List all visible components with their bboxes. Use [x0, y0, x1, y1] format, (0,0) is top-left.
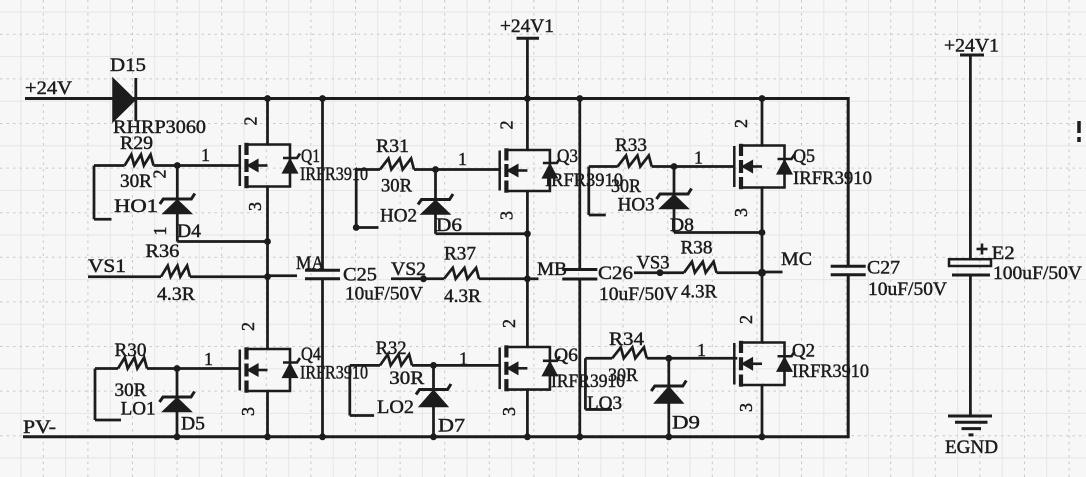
svg-text:C25: C25 — [343, 265, 377, 286]
junction C26 PV- — [576, 433, 583, 440]
zener D9 — [651, 358, 686, 437]
transistor Q5 — [734, 144, 794, 189]
pin 1 Q3 — [458, 149, 467, 169]
value 30R (R32) — [389, 368, 424, 389]
label R29 — [120, 133, 153, 154]
node HO1 label — [114, 196, 158, 217]
zener D7 — [416, 365, 451, 436]
wire PV- bottom rail — [23, 435, 849, 438]
svg-text:3: 3 — [497, 211, 517, 220]
wire Q6 source — [526, 390, 529, 437]
label R33 — [615, 135, 647, 156]
label R36 — [145, 241, 179, 262]
wire gate Q1 — [177, 164, 240, 167]
svg-text:10uF/50V: 10uF/50V — [345, 284, 423, 305]
svg-text:EGND: EGND — [945, 437, 998, 458]
transistor Q3 — [500, 148, 560, 192]
wire Q1 drain — [266, 99, 269, 145]
resistor R33 — [589, 156, 674, 167]
pin 3 Q1 — [245, 202, 265, 211]
value IRFR3910 (Q2) — [792, 361, 869, 382]
wire Q3 source — [526, 191, 529, 279]
svg-text:E2: E2 — [992, 243, 1015, 264]
svg-text:100uF/50V: 100uF/50V — [993, 263, 1082, 284]
svg-text:30R: 30R — [389, 368, 424, 389]
wire gate Q6 — [434, 364, 501, 367]
wire Q5 drain — [761, 99, 764, 146]
resistor R34 — [585, 347, 668, 358]
value IRFR3910 (Q1) — [300, 164, 368, 185]
svg-text:R34: R34 — [609, 329, 645, 350]
value 4.3R (R38) — [681, 282, 717, 303]
svg-text:C26: C26 — [598, 263, 633, 284]
wire E2 bottom — [969, 275, 972, 416]
transistor Q1 — [240, 143, 300, 188]
svg-text:D15: D15 — [110, 55, 146, 76]
svg-text:Q2: Q2 — [792, 341, 815, 362]
junction gate node Q2 — [665, 355, 672, 362]
junction D5 PV- — [174, 433, 181, 440]
value IRFR3910 (Q5) — [793, 168, 872, 189]
svg-text:LO3: LO3 — [587, 393, 622, 414]
svg-text:R37: R37 — [444, 244, 476, 265]
wire C26 top — [578, 99, 581, 270]
pin 2 Q3 — [497, 121, 517, 130]
label Q2 — [792, 341, 815, 362]
svg-text:VS1: VS1 — [88, 256, 126, 277]
svg-text:R31: R31 — [376, 136, 409, 157]
junction gate node Q5 — [671, 163, 678, 170]
wire C25 top — [321, 99, 324, 271]
zener D4 — [160, 166, 195, 242]
svg-text:R38: R38 — [681, 238, 713, 259]
label C26 — [598, 263, 633, 284]
junction Q4 source PV- — [264, 433, 271, 440]
svg-text:R33: R33 — [615, 135, 647, 156]
pin 1 D4 — [150, 227, 170, 236]
wire D8 anode to source — [674, 231, 762, 234]
junction D7 PV- — [430, 433, 437, 440]
svg-text:3: 3 — [499, 407, 519, 416]
ground EGND — [948, 416, 992, 435]
value 30R (R31) — [381, 176, 412, 197]
label R30 — [115, 340, 147, 361]
pin 2 Q1 — [241, 117, 261, 126]
svg-text:+24V1: +24V1 — [944, 36, 999, 57]
svg-text:PV-: PV- — [23, 417, 56, 438]
wire Q3 drain — [526, 99, 529, 151]
capacitor E2 — [949, 244, 991, 276]
junction gate node Q3 — [432, 166, 439, 173]
value 4.3R (R37) — [444, 286, 481, 307]
svg-text:2: 2 — [497, 121, 517, 130]
capacitor C26 — [562, 270, 597, 280]
label D6 — [436, 215, 462, 236]
pin 3 Q5 — [731, 208, 751, 217]
svg-text:2: 2 — [150, 170, 170, 179]
wire E2 top — [969, 55, 972, 259]
resistor R38 — [634, 262, 762, 273]
svg-text:3: 3 — [245, 202, 265, 211]
svg-text:R29: R29 — [120, 133, 153, 154]
pin 1 Q6 — [459, 349, 468, 369]
wire LO1 stub — [95, 369, 121, 421]
value IRFR3910 (Q6) — [551, 371, 625, 392]
svg-text:+24V1: +24V1 — [500, 16, 554, 37]
junction D6-source — [524, 230, 531, 237]
wire gate Q2 — [669, 357, 738, 360]
pin 2 D4 — [150, 170, 170, 179]
transistor Q6 — [500, 345, 560, 391]
node +24V1 label (mid) — [500, 16, 554, 37]
svg-text:2: 2 — [238, 322, 258, 331]
svg-text:D5: D5 — [181, 414, 205, 435]
svg-text:1: 1 — [694, 148, 703, 168]
svg-text:1: 1 — [459, 349, 468, 369]
pin 1 Q1 — [201, 145, 210, 165]
svg-text:R36: R36 — [145, 241, 179, 262]
junction phase B — [524, 275, 531, 282]
label Q1 — [301, 146, 320, 167]
wire gate Q3 — [436, 168, 501, 171]
svg-text:HO3: HO3 — [618, 195, 655, 216]
label R38 — [681, 238, 713, 259]
resistor R30 — [95, 358, 177, 369]
wire MA stub — [268, 274, 298, 277]
junction C25 rail — [319, 95, 326, 102]
wire +24V1 feed — [517, 38, 540, 98]
zener D6 — [418, 170, 453, 234]
pin 2 Q4 — [238, 322, 258, 331]
svg-text:3: 3 — [736, 403, 756, 412]
wire +24V / +24V1 top rail — [25, 97, 849, 100]
svg-text:10uF/50V: 10uF/50V — [868, 279, 947, 300]
junction phase A — [264, 273, 271, 280]
pin 3 Q6 — [499, 407, 519, 416]
junction C26 rail — [576, 95, 583, 102]
power +24V1 (right) — [944, 36, 999, 57]
value 10uF/50V (C27) — [868, 279, 947, 300]
svg-text:IRFR3910: IRFR3910 — [300, 164, 368, 185]
svg-text:IRFR3910: IRFR3910 — [792, 361, 869, 382]
svg-text:3: 3 — [731, 208, 751, 217]
wire D4 anode to source — [177, 240, 267, 243]
label C25 — [343, 265, 377, 286]
svg-text:1: 1 — [458, 149, 467, 169]
label R34 — [609, 329, 645, 350]
value 10uF/50V (C26) — [599, 284, 678, 305]
value IRFR3910 (Q4) — [300, 363, 368, 384]
svg-text:HO1: HO1 — [114, 196, 158, 217]
node EGND label — [945, 437, 998, 458]
svg-text:VS3: VS3 — [637, 253, 670, 274]
node +24V label — [25, 78, 72, 99]
svg-text:MC: MC — [781, 249, 812, 270]
transistor Q2 — [734, 341, 794, 387]
junction C25 PV- — [319, 433, 326, 440]
label Q5 — [793, 146, 815, 167]
wire C27 bottom — [847, 275, 850, 439]
svg-text:R32: R32 — [376, 338, 407, 359]
junction D8-source — [759, 229, 766, 236]
svg-text:C27: C27 — [867, 258, 900, 279]
label R32 — [376, 338, 407, 359]
label D8 — [670, 215, 694, 236]
label R37 — [444, 244, 476, 265]
resistor R29 — [94, 155, 177, 166]
node PV- label — [23, 417, 56, 438]
label Q4 — [301, 344, 321, 365]
junction D4-source — [264, 238, 271, 245]
svg-text:1: 1 — [697, 340, 706, 360]
svg-text:1: 1 — [201, 145, 210, 165]
svg-text:30R: 30R — [381, 176, 412, 197]
label D4 — [177, 221, 202, 242]
label D7 — [438, 416, 465, 437]
wire Q6 drain — [526, 279, 529, 347]
value 100uF/50V (E2) — [993, 263, 1082, 284]
svg-text:Q6: Q6 — [554, 345, 578, 366]
node MA label — [296, 253, 324, 274]
value RHRP3060 — [113, 117, 206, 138]
wire Q2 source — [761, 385, 764, 437]
junction VS3 stub — [657, 269, 664, 276]
pin 1 Q5 — [694, 148, 703, 168]
text fragment at right edge — [1077, 121, 1081, 142]
value 30R (R34) — [608, 365, 638, 386]
node VS3 label — [637, 253, 670, 274]
label Q3 — [557, 146, 578, 167]
svg-text:2: 2 — [499, 319, 519, 328]
svg-text:1: 1 — [150, 227, 170, 236]
pin 3 Q4 — [238, 407, 258, 416]
wire Q4 source — [266, 391, 269, 437]
transistor Q4 — [240, 347, 300, 392]
pin 2 Q6 — [499, 319, 519, 328]
svg-text:30R: 30R — [115, 380, 147, 401]
svg-text:30R: 30R — [120, 171, 152, 192]
svg-text:2: 2 — [241, 117, 261, 126]
svg-text:Q5: Q5 — [793, 146, 815, 167]
svg-text:4.3R: 4.3R — [157, 284, 195, 305]
wire C26 bottom — [578, 279, 581, 437]
label D5 — [181, 414, 205, 435]
label R31 — [376, 136, 409, 157]
svg-text:IRFR3910: IRFR3910 — [793, 168, 872, 189]
wire Q4 drain — [266, 277, 269, 349]
wire C27 top — [847, 97, 850, 266]
label D9 — [672, 413, 700, 434]
svg-text:Q3: Q3 — [557, 146, 578, 167]
node VS1 label — [88, 256, 126, 277]
wire gate Q4 — [177, 367, 240, 370]
svg-text:D9: D9 — [672, 413, 700, 434]
resistor R31 — [356, 159, 435, 170]
junction Q1 drain rail — [264, 95, 271, 102]
junction HO2 stub — [353, 224, 360, 231]
pin 1 Q2 — [697, 340, 706, 360]
value 10uF/50V (C25) — [345, 284, 423, 305]
wire MB stub — [527, 277, 538, 280]
resistor R37 — [391, 268, 527, 279]
node MC label — [781, 249, 812, 270]
junction +24V1 rail — [524, 95, 531, 102]
node VS2 label — [391, 259, 426, 280]
junction Q2 source PV- — [759, 433, 766, 440]
label Q6 — [554, 345, 578, 366]
junction Q5 drain rail — [759, 95, 766, 102]
junction gate node Q1 — [174, 162, 181, 169]
wire HO3 stub — [589, 167, 606, 216]
pin 2 Q5 — [731, 119, 751, 128]
wire MC stub — [762, 271, 783, 274]
node HO2 label — [380, 206, 417, 227]
svg-text:LO1: LO1 — [121, 399, 156, 420]
pin 2 Q2 — [736, 315, 756, 324]
junction D9 PV- — [665, 433, 672, 440]
svg-text:+24V: +24V — [25, 78, 72, 99]
pin 3 Q3 — [497, 211, 517, 220]
zener D5 — [160, 369, 195, 437]
svg-text:D7: D7 — [438, 416, 465, 437]
wire LO3 stub — [585, 358, 612, 409]
wire gate Q5 — [674, 165, 735, 168]
svg-text:R30: R30 — [115, 340, 147, 361]
svg-text:4.3R: 4.3R — [444, 286, 481, 307]
node HO3 label — [618, 195, 655, 216]
capacitor C27 — [831, 266, 866, 275]
capacitor C25 — [305, 270, 340, 278]
wire Q5 source — [761, 188, 764, 273]
label D15 — [110, 55, 146, 76]
svg-text:LO2: LO2 — [377, 397, 414, 418]
wire HO2 stub — [356, 170, 378, 228]
svg-text:2: 2 — [731, 119, 751, 128]
pin 3 Q2 — [736, 403, 756, 412]
node MB label — [537, 259, 567, 280]
svg-text:30R: 30R — [608, 365, 638, 386]
wire D6 anode to source — [436, 232, 528, 235]
svg-text:10uF/50V: 10uF/50V — [599, 284, 678, 305]
svg-text:4.3R: 4.3R — [681, 282, 717, 303]
label E2 — [992, 243, 1015, 264]
node LO3 label — [587, 393, 622, 414]
wire HO1 stub — [94, 166, 112, 220]
value 30R (R29) — [120, 171, 152, 192]
junction gate node Q4 — [174, 365, 181, 372]
svg-text:D4: D4 — [177, 221, 202, 242]
wire C25 bottom — [321, 279, 324, 437]
value 30R (R30) — [115, 380, 147, 401]
wire Q2 drain — [761, 273, 764, 343]
zener D8 — [657, 167, 692, 233]
junction VS2 stub — [420, 275, 427, 282]
svg-text:HO2: HO2 — [380, 206, 417, 227]
value 30R (R33) — [611, 176, 641, 197]
wire LO2 stub — [350, 365, 374, 415]
pin 1 Q4 — [204, 349, 213, 369]
value IRFR3910 (Q3) — [545, 170, 623, 191]
label C27 — [867, 258, 900, 279]
node LO2 label — [377, 397, 414, 418]
resistor R32 — [350, 354, 434, 365]
svg-text:2: 2 — [736, 315, 756, 324]
junction gate node Q6 — [430, 362, 437, 369]
diode D15 — [113, 78, 136, 122]
junction phase C — [758, 269, 766, 277]
svg-text:3: 3 — [238, 407, 258, 416]
value 4.3R (R36) — [157, 284, 195, 305]
svg-text:1: 1 — [204, 349, 213, 369]
junction Q6 source PV- — [524, 433, 531, 440]
resistor R36 — [88, 266, 268, 277]
wire Q1 source — [266, 187, 269, 277]
svg-text:30R: 30R — [611, 176, 641, 197]
node LO1 label — [121, 399, 156, 420]
